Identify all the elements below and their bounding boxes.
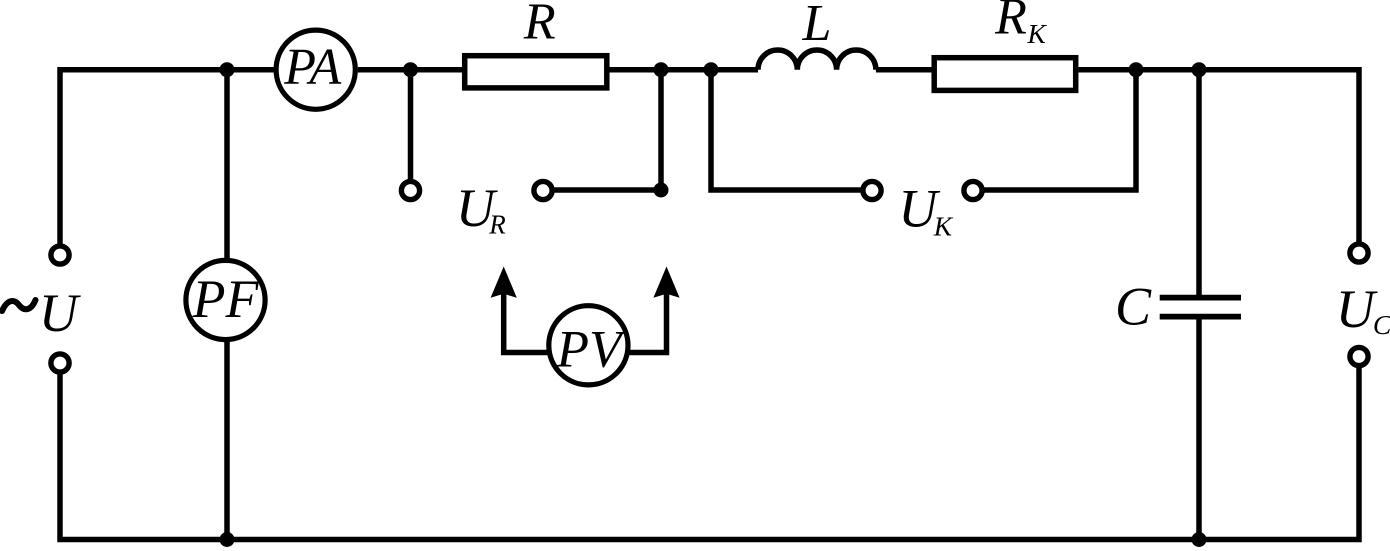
svg-text:R: R bbox=[523, 0, 556, 51]
terminal UR left bbox=[401, 181, 419, 199]
svg-text:K: K bbox=[933, 211, 954, 242]
terminal UC top bbox=[1350, 244, 1368, 262]
svg-text:U: U bbox=[1336, 279, 1378, 339]
arrowhead left PV probe bbox=[491, 267, 517, 298]
wattmeter PF circle bbox=[186, 260, 265, 339]
svg-text:U: U bbox=[39, 283, 81, 343]
junction node after RK bbox=[1129, 62, 1144, 77]
svg-text:C: C bbox=[1115, 277, 1152, 337]
junction node capacitor top bbox=[1192, 62, 1207, 77]
resistor RK bbox=[934, 58, 1075, 91]
junction node capacitor bottom bbox=[1192, 532, 1207, 547]
svg-text:K: K bbox=[1027, 18, 1048, 49]
terminal UR right bbox=[534, 181, 552, 199]
inductor L bbox=[758, 50, 876, 70]
terminal source U bottom bbox=[51, 354, 69, 372]
wire top-left corner: left vertical + top horizontal to PA bbox=[60, 70, 274, 244]
arrowhead right PV probe bbox=[653, 267, 679, 298]
svg-text:R: R bbox=[994, 0, 1027, 45]
junction node UR probe meets drop bbox=[654, 183, 669, 198]
junction node before L bbox=[704, 62, 719, 77]
wire PF branch lower bbox=[224, 342, 230, 540]
wire PA right to resistor R left bbox=[358, 67, 462, 73]
ammeter PA circle bbox=[276, 30, 355, 109]
svg-text:PV: PV bbox=[556, 320, 627, 378]
tilde of source label bbox=[2, 300, 36, 311]
wire inductor right to RK left bbox=[876, 67, 932, 73]
capacitor C bottom plate bbox=[1160, 314, 1241, 320]
terminal UC bottom bbox=[1350, 347, 1368, 365]
svg-text:PF: PF bbox=[192, 269, 260, 329]
terminal source U top bbox=[51, 246, 69, 264]
capacitor C top plate bbox=[1160, 295, 1241, 301]
terminal UK left bbox=[863, 181, 881, 199]
junction node after PA bbox=[403, 62, 418, 77]
svg-text:PA: PA bbox=[283, 39, 341, 96]
wire RK right to top-right corner, down to UC top terminal bbox=[1079, 70, 1360, 242]
svg-text:C: C bbox=[1373, 309, 1390, 340]
voltmeter PV circle bbox=[549, 306, 628, 385]
voltmeter PV right lead and arrow shaft bbox=[628, 290, 667, 353]
wire bottom U: left vertical, bottom horizontal, right vertical to UC bottom terminal bbox=[60, 368, 1359, 540]
svg-text:R: R bbox=[488, 210, 506, 240]
junction node PF branch bottom bbox=[220, 532, 235, 547]
svg-text:L: L bbox=[802, 0, 832, 52]
resistor R bbox=[465, 56, 607, 88]
wire PF branch upper bbox=[224, 70, 230, 258]
junction node after R bbox=[654, 62, 669, 77]
wire capacitor branch upper bbox=[1196, 70, 1202, 295]
junction node at PF branch top bbox=[220, 62, 235, 77]
wire UR right probe: terminal to node under R right bbox=[554, 70, 661, 190]
wire UK left probe: node before L down and right to terminal bbox=[711, 70, 862, 190]
wire capacitor branch lower bbox=[1196, 319, 1202, 540]
terminal UK right bbox=[964, 181, 982, 199]
voltmeter PV left lead and arrow shaft bbox=[504, 290, 549, 353]
wire R right to inductor L left bbox=[610, 67, 759, 73]
wire UK right probe: terminal to node after RK bbox=[984, 70, 1137, 190]
wire UR probe drop from node after PA bbox=[408, 70, 414, 180]
